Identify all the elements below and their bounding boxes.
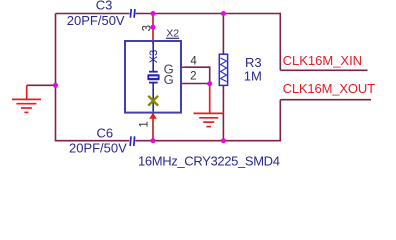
junction (223.4,140.7) R3 bottom bbox=[221, 138, 226, 143]
junction (55.5,85.3) ground stub bbox=[53, 83, 58, 88]
wire pin 2 bbox=[185, 83, 211, 85]
svg-text:CLK16M_XIN: CLK16M_XIN bbox=[283, 53, 362, 68]
junction (223,13.5) R3 top bbox=[221, 11, 226, 16]
svg-text:4: 4 bbox=[190, 55, 197, 67]
svg-text:C3: C3 bbox=[96, 0, 113, 13]
wire left ground stub bbox=[27, 84, 56, 86]
wire pins 4-2 tie vertical bbox=[209, 67, 211, 84]
pin 4 tip bbox=[181, 66, 185, 68]
wire R3 bottom bbox=[222, 85, 224, 140]
crystal body bbox=[147, 74, 159, 80]
svg-text:20PF/50V: 20PF/50V bbox=[69, 141, 127, 156]
junction (209.7,83.7) pins 4-2 bbox=[207, 81, 212, 86]
wire R3 top bbox=[222, 14, 224, 55]
junction (153,140.7) pin1 bbox=[151, 138, 156, 143]
ground (left) bbox=[12, 85, 41, 112]
wire bottom rail right of C6 bbox=[135, 140, 280, 142]
svg-text:2: 2 bbox=[190, 70, 196, 82]
wire top rail right of C3 bbox=[136, 13, 281, 15]
wire pin 1 bbox=[152, 113, 154, 141]
pin 2 tip bbox=[181, 83, 185, 85]
wire left rail bbox=[55, 14, 57, 142]
svg-text:1M: 1M bbox=[244, 69, 262, 84]
svg-text:1: 1 bbox=[138, 121, 150, 127]
svg-text:16MHz_CRY3225_SMD4: 16MHz_CRY3225_SMD4 bbox=[138, 154, 280, 169]
wire pin 4 bbox=[185, 66, 211, 68]
crystal X2 box bbox=[125, 41, 181, 113]
crystal internal stem top bbox=[152, 42, 154, 72]
pin 1 arrow bbox=[149, 113, 157, 119]
wire net CLK16M_XIN bbox=[280, 69, 367, 71]
junction (153,13.5) bbox=[151, 11, 156, 16]
capacitor C3 bbox=[130, 9, 135, 18]
wire pin 3 bbox=[152, 14, 154, 44]
svg-text:20PF/50V: 20PF/50V bbox=[67, 13, 125, 28]
junction (153,27) pin3 bbox=[151, 25, 156, 30]
svg-text:X3: X3 bbox=[148, 50, 160, 63]
crystal bottom plate bbox=[149, 82, 158, 84]
svg-text:CLK16M_XOUT: CLK16M_XOUT bbox=[283, 81, 375, 96]
no-connect X marker bbox=[148, 96, 158, 106]
capacitor C6 bbox=[130, 136, 134, 146]
wire right vertical from XOUT bbox=[279, 100, 281, 142]
label X2 bbox=[166, 28, 179, 40]
crystal internal stem bottom bbox=[152, 83, 154, 112]
resistor R3 bbox=[219, 54, 227, 85]
ground (middle) bbox=[194, 84, 225, 127]
wire top rail left of C3 bbox=[56, 13, 130, 15]
svg-text:G: G bbox=[164, 72, 174, 87]
wire net CLK16M_XOUT bbox=[280, 99, 371, 101]
wire bottom rail left of C6 bbox=[56, 140, 130, 142]
crystal top plate bbox=[149, 71, 158, 73]
svg-text:C6: C6 bbox=[96, 125, 113, 140]
wire right vertical to XIN bbox=[279, 13, 281, 71]
